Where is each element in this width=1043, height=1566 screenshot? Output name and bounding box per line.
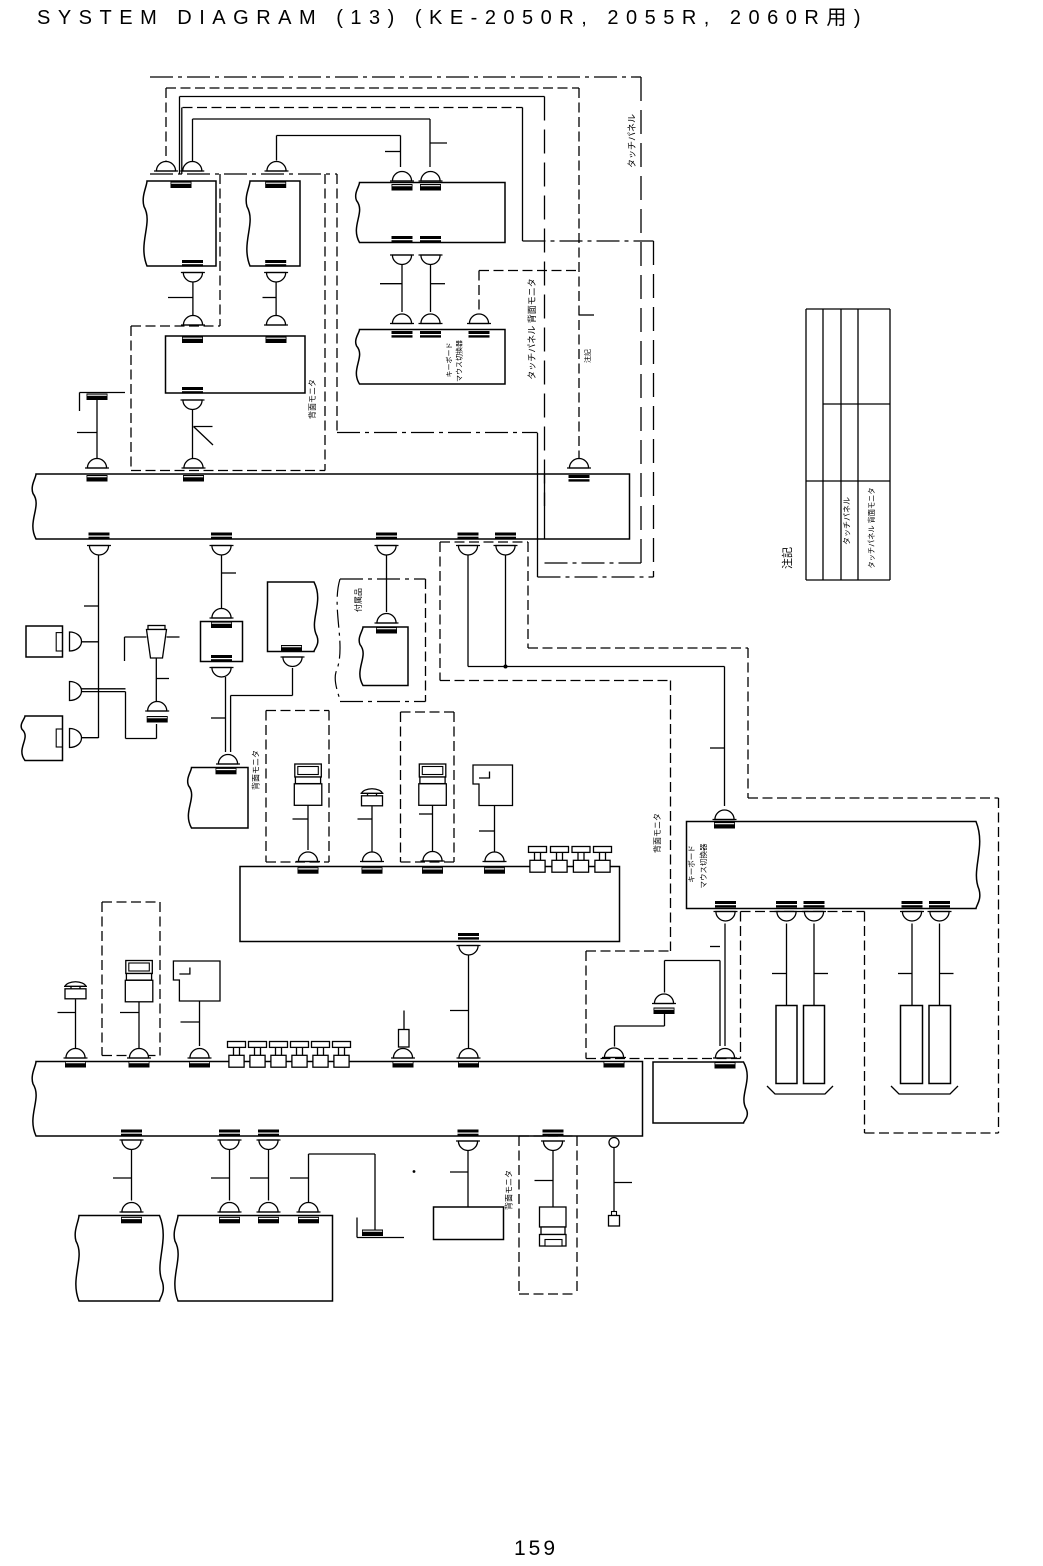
svg-text:キーボード: キーボード bbox=[446, 343, 454, 378]
svg-text:注記: 注記 bbox=[780, 547, 794, 569]
svg-text:タッチパネル: タッチパネル bbox=[843, 497, 852, 545]
svg-text:付属品: 付属品 bbox=[353, 588, 363, 612]
svg-text:タッチパネル 背面モニタ: タッチパネル 背面モニタ bbox=[867, 487, 876, 568]
svg-text:背面モニタ: 背面モニタ bbox=[652, 813, 662, 853]
svg-text:背面モニタ: 背面モニタ bbox=[307, 379, 317, 419]
svg-text:背面モニタ: 背面モニタ bbox=[251, 750, 261, 790]
svg-text:注記: 注記 bbox=[583, 349, 592, 363]
svg-text:背面モニタ: 背面モニタ bbox=[504, 1170, 514, 1210]
svg-text:マウス切換器: マウス切換器 bbox=[455, 340, 464, 382]
svg-text:キーボード: キーボード bbox=[687, 845, 696, 883]
svg-text:タッチパネル 背面モニタ: タッチパネル 背面モニタ bbox=[526, 278, 537, 380]
svg-text:タッチパネル: タッチパネル bbox=[627, 114, 637, 168]
svg-text:マウス切換器: マウス切換器 bbox=[698, 843, 708, 888]
